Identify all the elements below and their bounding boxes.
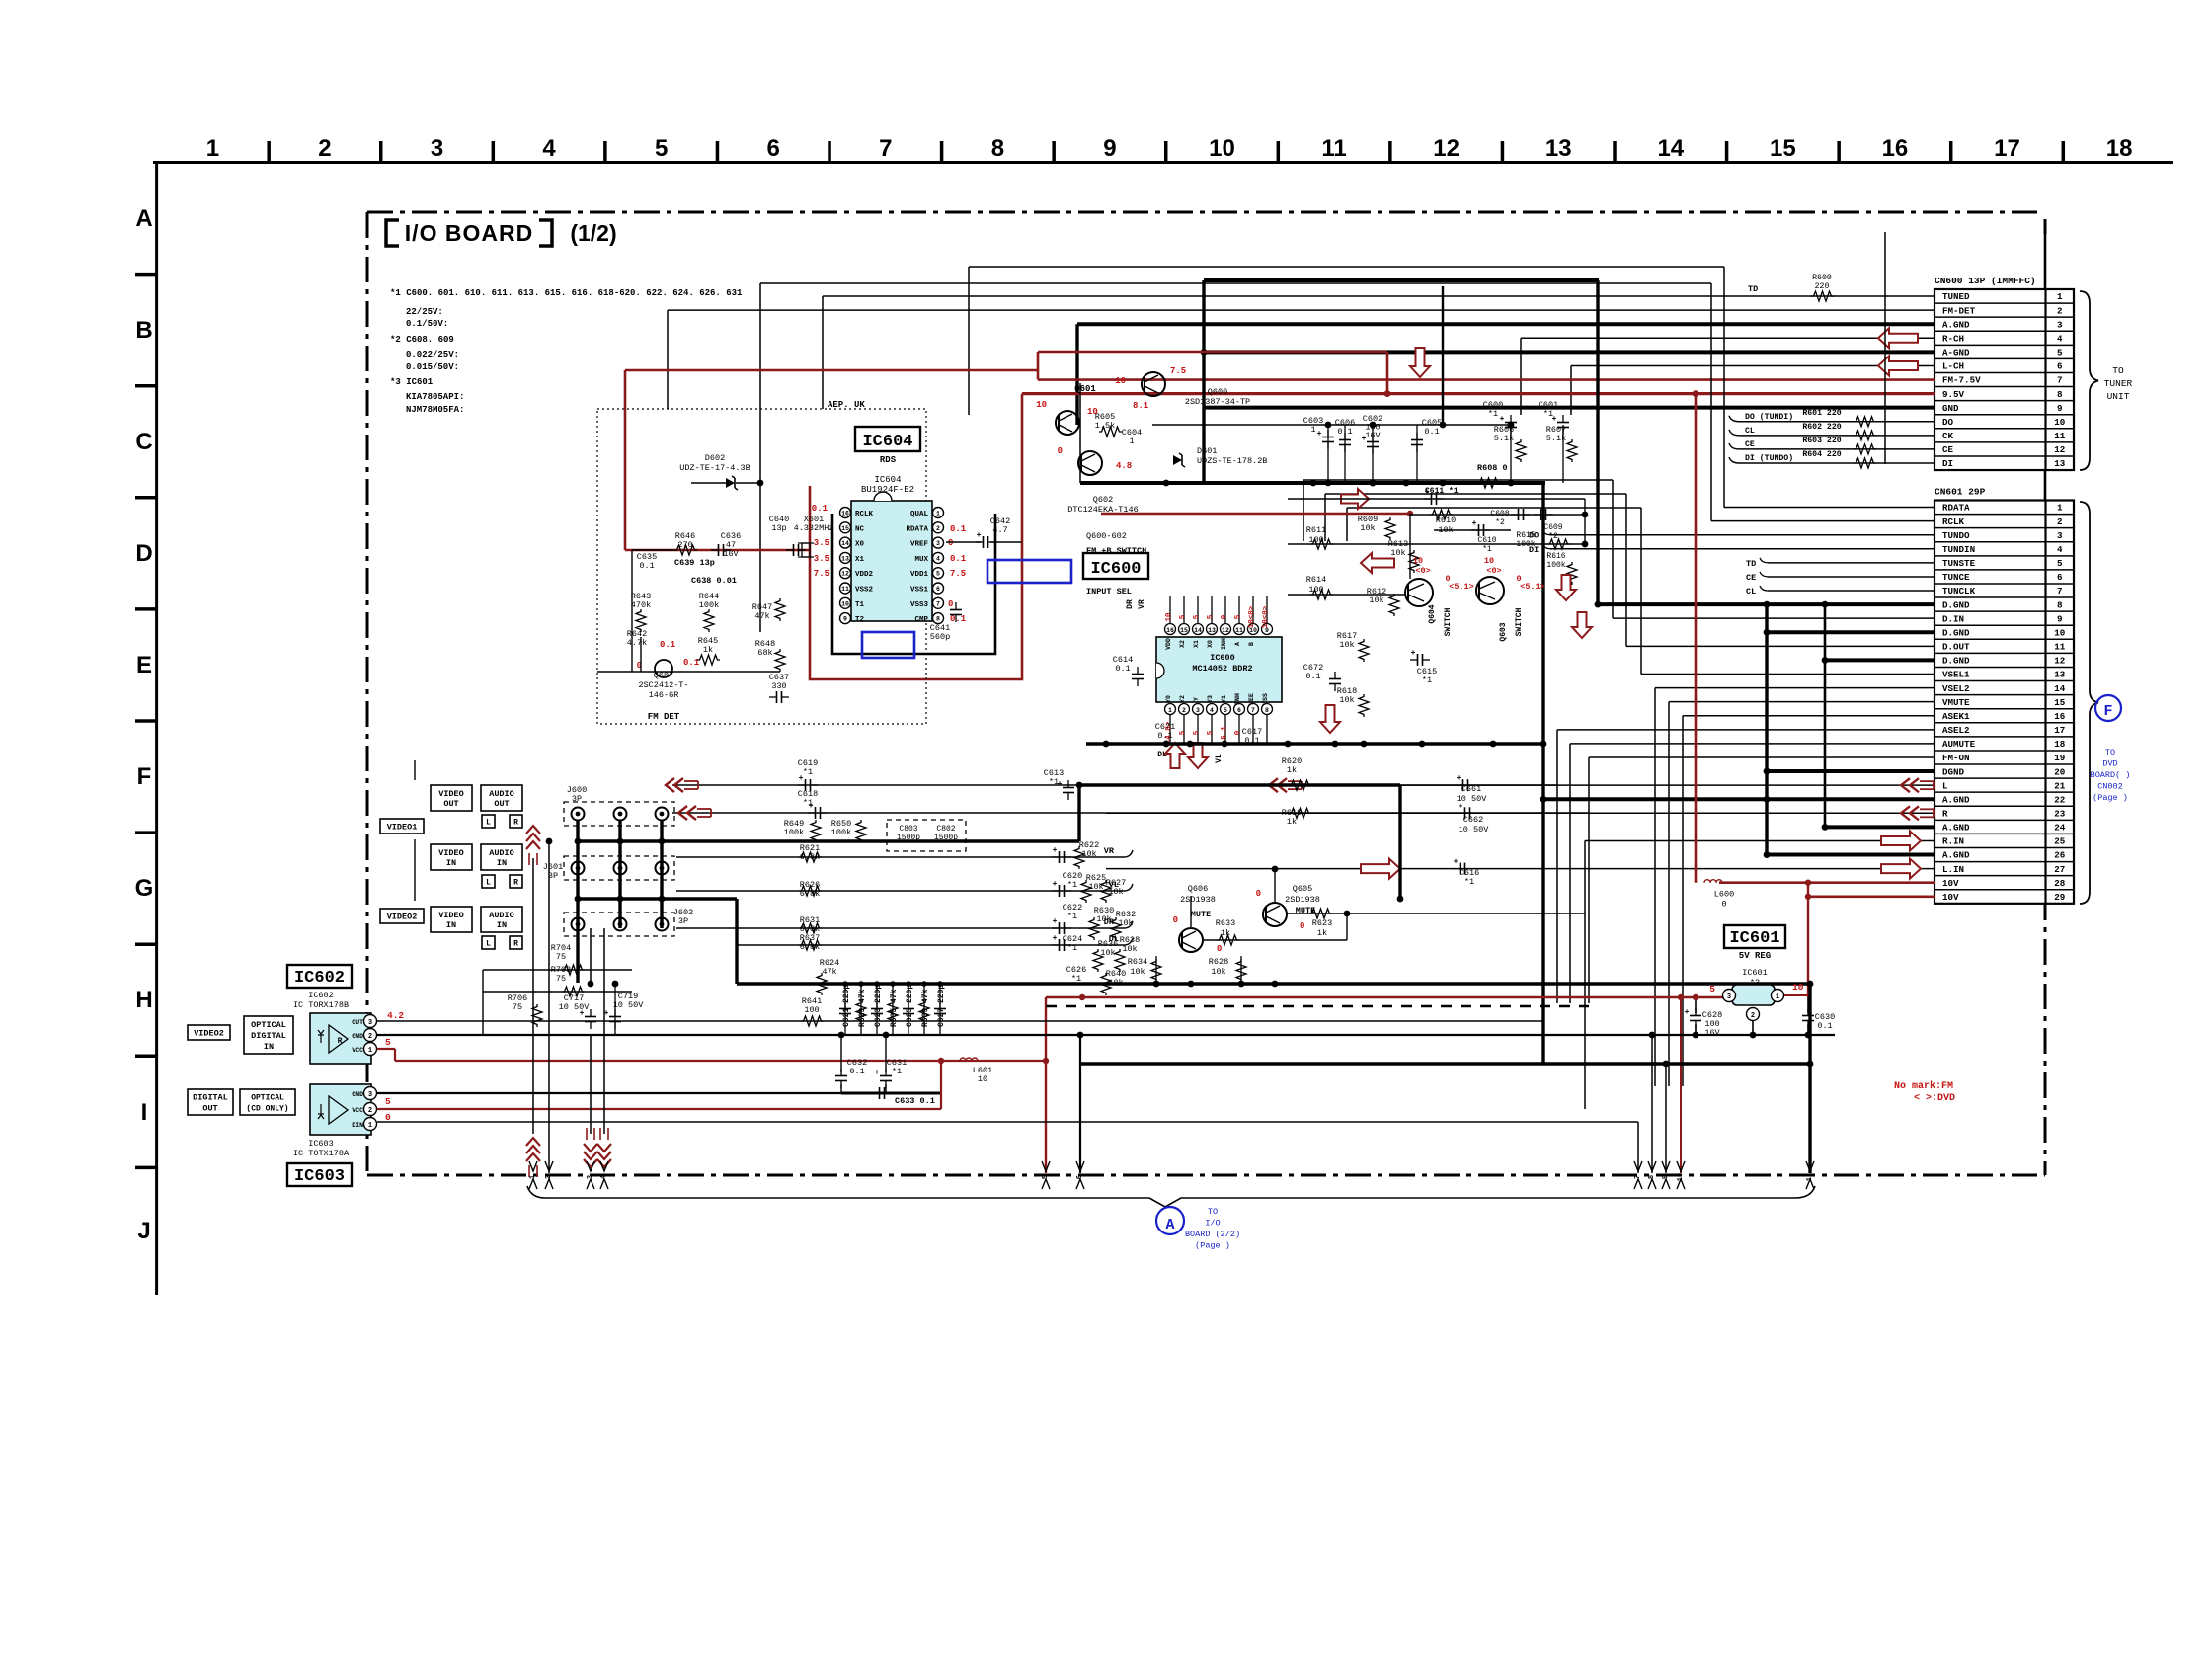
svg-text:2SC2412-T-: 2SC2412-T- xyxy=(638,680,688,690)
svg-text:0: 0 xyxy=(948,538,953,548)
svg-text:5: 5 xyxy=(1234,614,1242,619)
svg-text:A: A xyxy=(135,205,152,232)
svg-text:1500p: 1500p xyxy=(934,834,958,842)
svg-text:INPUT SEL: INPUT SEL xyxy=(1086,587,1132,596)
svg-text:R628: R628 xyxy=(1209,957,1228,967)
svg-text:2: 2 xyxy=(2057,516,2063,527)
svg-text:10V: 10V xyxy=(1942,878,1959,889)
svg-text:10<0>: 10<0> xyxy=(1248,605,1256,628)
svg-text:C803: C803 xyxy=(899,825,917,834)
svg-text:VSS: VSS xyxy=(1262,693,1269,705)
svg-text:5: 5 xyxy=(1709,984,1715,994)
svg-text:9: 9 xyxy=(1103,135,1116,162)
svg-text:+: + xyxy=(1500,415,1505,424)
svg-text:R.IN: R.IN xyxy=(1942,836,1964,847)
svg-text:2: 2 xyxy=(318,135,331,162)
svg-text:10: 10 xyxy=(1165,612,1173,622)
svg-text:D.OUT: D.OUT xyxy=(1942,642,1970,653)
svg-text:5: 5 xyxy=(1224,707,1227,714)
svg-text:5: 5 xyxy=(1207,730,1215,735)
svg-text:IN: IN xyxy=(497,920,507,930)
svg-text:R: R xyxy=(513,940,518,949)
svg-text:RDS: RDS xyxy=(880,455,897,465)
svg-text:+: + xyxy=(580,1009,585,1018)
svg-text:T1: T1 xyxy=(855,601,865,609)
svg-text:5.1: 5.1 xyxy=(1221,726,1228,740)
svg-text:FM-7.5V: FM-7.5V xyxy=(1942,375,1981,386)
svg-text:<5.1>: <5.1> xyxy=(1449,582,1474,592)
svg-text:DR: DR xyxy=(1126,599,1135,609)
svg-text:DIGITAL: DIGITAL xyxy=(251,1031,286,1041)
svg-text:12: 12 xyxy=(1433,135,1460,162)
svg-text:14: 14 xyxy=(1194,627,1202,634)
svg-text:5: 5 xyxy=(1193,614,1201,619)
svg-text:9: 9 xyxy=(843,616,847,623)
svg-text:+: + xyxy=(1411,649,1416,658)
svg-text:Q604: Q604 xyxy=(1428,604,1437,623)
svg-text:(Page ): (Page ) xyxy=(1195,1241,1230,1251)
svg-text:2SD1938: 2SD1938 xyxy=(1180,895,1216,905)
svg-text:C611 *1: C611 *1 xyxy=(1425,487,1459,496)
svg-text:+: + xyxy=(977,531,982,540)
svg-text:L600: L600 xyxy=(1714,890,1734,900)
svg-text:UDZ-TE-17-4.3B: UDZ-TE-17-4.3B xyxy=(679,463,750,473)
svg-text:1k: 1k xyxy=(703,645,713,655)
svg-text:0: 0 xyxy=(1058,446,1063,456)
svg-text:R: R xyxy=(513,819,518,828)
svg-text:R615: R615 xyxy=(1516,531,1535,540)
svg-text:+: + xyxy=(1685,1008,1690,1017)
svg-text:0.1: 0.1 xyxy=(950,524,967,534)
svg-text:+: + xyxy=(1053,934,1058,943)
svg-text:10: 10 xyxy=(1677,1173,1685,1181)
svg-text:IC601: IC601 xyxy=(1729,929,1779,948)
svg-text:VCC: VCC xyxy=(352,1047,363,1054)
svg-text:BOARD( ): BOARD( ) xyxy=(2091,770,2131,780)
svg-text:IC601: IC601 xyxy=(1742,968,1768,978)
svg-text:0: 0 xyxy=(1300,921,1304,931)
svg-text:C609: C609 xyxy=(1543,523,1562,532)
svg-text:10<0>: 10<0> xyxy=(1262,605,1270,628)
svg-text:R: R xyxy=(1942,809,1948,820)
svg-text:0.1: 0.1 xyxy=(849,1067,864,1076)
svg-text:A.GND: A.GND xyxy=(1942,794,1970,805)
svg-text:100: 100 xyxy=(804,1005,819,1015)
svg-text:4: 4 xyxy=(936,555,940,562)
svg-text:5: 5 xyxy=(2057,558,2063,569)
svg-text:J: J xyxy=(137,1218,150,1244)
svg-text:7.5: 7.5 xyxy=(814,569,829,579)
svg-text:10k: 10k xyxy=(1096,914,1111,924)
svg-text:D602: D602 xyxy=(705,453,725,463)
svg-text:13: 13 xyxy=(1545,135,1572,162)
svg-text:*1: *1 xyxy=(1464,877,1474,887)
svg-text:INH: INH xyxy=(1221,638,1227,650)
svg-text:4.7k: 4.7k xyxy=(627,638,647,648)
svg-text:A.GND: A.GND xyxy=(1942,823,1970,834)
svg-text:100k: 100k xyxy=(831,828,851,837)
svg-text:4: 4 xyxy=(2057,544,2063,555)
svg-text:100k: 100k xyxy=(699,600,719,610)
svg-text:10k: 10k xyxy=(1211,967,1225,977)
svg-text:Y3: Y3 xyxy=(1207,695,1214,703)
svg-text:17: 17 xyxy=(2054,725,2065,736)
svg-text:1: 1 xyxy=(1776,993,1779,1001)
svg-text:AUDIO: AUDIO xyxy=(489,789,514,799)
svg-text:0.022/25V:: 0.022/25V: xyxy=(406,350,459,359)
svg-text:0.1: 0.1 xyxy=(660,640,676,650)
svg-text:17: 17 xyxy=(1994,135,2020,162)
svg-text:<0>: <0> xyxy=(1415,566,1430,576)
svg-text:VSS1: VSS1 xyxy=(910,587,929,595)
svg-text:GND: GND xyxy=(352,1033,363,1040)
svg-text:VSEL1: VSEL1 xyxy=(1942,670,1970,680)
svg-text:C662: C662 xyxy=(1463,815,1483,825)
svg-text:5: 5 xyxy=(1193,730,1201,735)
svg-text:15: 15 xyxy=(841,525,849,532)
svg-text:470k: 470k xyxy=(631,600,651,610)
svg-text:11: 11 xyxy=(1235,627,1243,634)
svg-text:IN: IN xyxy=(446,858,456,868)
svg-text:0.1: 0.1 xyxy=(1817,1021,1832,1031)
svg-text:22: 22 xyxy=(2054,794,2065,805)
svg-text:10V: 10V xyxy=(1942,892,1959,903)
svg-text:+: + xyxy=(1053,846,1058,855)
svg-text:TO: TO xyxy=(2112,365,2124,376)
svg-text:IC600: IC600 xyxy=(1090,560,1141,579)
svg-text:11: 11 xyxy=(1321,135,1346,162)
svg-text:FM-ON: FM-ON xyxy=(1942,753,1970,763)
svg-text:R623: R623 xyxy=(1312,918,1332,928)
svg-text:10 50V: 10 50V xyxy=(613,1000,645,1010)
svg-text:18: 18 xyxy=(2054,739,2066,750)
svg-text:10k: 10k xyxy=(1390,548,1405,558)
svg-text:5: 5 xyxy=(655,135,668,162)
svg-text:VL: VL xyxy=(1215,754,1224,763)
svg-text:+: + xyxy=(1053,917,1058,926)
svg-text:CE: CE xyxy=(1746,573,1756,583)
svg-text:6: 6 xyxy=(1237,707,1241,714)
svg-text:E: E xyxy=(136,652,152,678)
svg-text:L-CH: L-CH xyxy=(1942,361,1964,372)
svg-text:Y0: Y0 xyxy=(1165,695,1172,703)
svg-text:3.5: 3.5 xyxy=(814,538,829,548)
svg-text:18: 18 xyxy=(2106,135,2133,162)
svg-text:VSS2: VSS2 xyxy=(855,587,874,595)
svg-text:VDD2: VDD2 xyxy=(855,571,874,579)
svg-text:*2: *2 xyxy=(1548,532,1558,541)
svg-text:IC600: IC600 xyxy=(1210,653,1235,663)
svg-text:16: 16 xyxy=(1166,627,1174,634)
svg-text:5V REG: 5V REG xyxy=(1739,951,1771,961)
svg-text:TD: TD xyxy=(1748,284,1758,294)
svg-text:R603 220: R603 220 xyxy=(1802,437,1841,445)
svg-text:4: 4 xyxy=(542,135,556,162)
svg-text:15: 15 xyxy=(2054,697,2066,708)
svg-text:Y1: Y1 xyxy=(1221,695,1227,703)
svg-text:7.5: 7.5 xyxy=(950,569,966,579)
svg-text:A: A xyxy=(1234,642,1241,646)
svg-text:VIDEO2: VIDEO2 xyxy=(194,1029,224,1039)
svg-text:22/25V:: 22/25V: xyxy=(406,307,443,317)
svg-text:I/O: I/O xyxy=(1205,1219,1220,1229)
svg-text:VCC: VCC xyxy=(352,1107,363,1114)
svg-text:QUAL: QUAL xyxy=(910,511,929,518)
svg-text:16V: 16V xyxy=(1704,1028,1720,1038)
svg-text:VREF: VREF xyxy=(910,541,929,549)
svg-text:Q603: Q603 xyxy=(1499,622,1508,641)
svg-text:6: 6 xyxy=(2057,361,2063,372)
svg-text:1k: 1k xyxy=(1287,765,1297,775)
svg-text:*3 IC601: *3 IC601 xyxy=(390,377,434,387)
svg-text:0.1/50V:: 0.1/50V: xyxy=(406,319,448,329)
svg-text:R: R xyxy=(338,1037,343,1046)
svg-text:C802: C802 xyxy=(936,825,955,834)
svg-text:No mark:FM: No mark:FM xyxy=(1894,1080,1953,1092)
svg-text:9: 9 xyxy=(2057,403,2063,414)
svg-text:5: 5 xyxy=(385,1096,391,1107)
svg-text:*2 C608. 609: *2 C608. 609 xyxy=(390,335,454,345)
svg-text:GND: GND xyxy=(1942,403,1959,414)
svg-text:CMP: CMP xyxy=(914,616,928,624)
svg-text:1: 1 xyxy=(206,135,219,162)
svg-text:VIDEO1: VIDEO1 xyxy=(387,823,418,833)
svg-text:*1: *1 xyxy=(1067,880,1077,890)
svg-text:5: 5 xyxy=(936,571,940,578)
svg-text:10k: 10k xyxy=(1118,918,1133,928)
svg-text:+: + xyxy=(1053,880,1058,889)
svg-text:L: L xyxy=(1942,780,1948,791)
svg-text:IN: IN xyxy=(264,1042,274,1052)
svg-text:10: 10 xyxy=(2054,417,2065,428)
svg-text:9: 9 xyxy=(1662,1175,1670,1179)
svg-text:Q602: Q602 xyxy=(1093,495,1113,505)
svg-text:14: 14 xyxy=(1657,135,1684,162)
svg-text:MUTE: MUTE xyxy=(1191,910,1211,919)
svg-text:0.1: 0.1 xyxy=(950,614,967,624)
svg-text:VDD: VDD xyxy=(1165,638,1172,650)
svg-text:AUDIO: AUDIO xyxy=(489,911,514,920)
svg-text:21: 21 xyxy=(2054,780,2066,791)
svg-text:5: 5 xyxy=(2057,348,2063,358)
svg-text:10 50V: 10 50V xyxy=(559,1002,591,1012)
svg-text:9.5V: 9.5V xyxy=(1942,389,1965,400)
svg-text:L.IN: L.IN xyxy=(1942,864,1964,875)
svg-text:C639 13p: C639 13p xyxy=(674,558,715,568)
svg-text:10: 10 xyxy=(1792,982,1804,993)
svg-text:7: 7 xyxy=(2057,586,2063,596)
svg-text:1: 1 xyxy=(1129,437,1134,446)
svg-text:4: 4 xyxy=(600,1175,608,1179)
svg-text:2: 2 xyxy=(936,525,940,532)
svg-text:3: 3 xyxy=(431,135,443,162)
svg-text:ASEL2: ASEL2 xyxy=(1942,725,1970,736)
svg-text:Q600-602: Q600-602 xyxy=(1086,531,1127,541)
svg-text:6.8k: 6.8k xyxy=(800,942,820,952)
svg-text:11: 11 xyxy=(841,586,849,593)
svg-text:R616: R616 xyxy=(1546,552,1565,561)
svg-text:2: 2 xyxy=(1751,1012,1755,1020)
svg-text:10: 10 xyxy=(841,600,849,607)
svg-text:3: 3 xyxy=(936,540,940,547)
svg-text:15: 15 xyxy=(1770,135,1796,162)
svg-text:2: 2 xyxy=(368,1107,372,1115)
svg-text:NJM78M05FA:: NJM78M05FA: xyxy=(406,405,464,415)
svg-text:2: 2 xyxy=(368,1033,372,1041)
svg-text:D.IN: D.IN xyxy=(1942,613,1964,624)
svg-text:FM DET: FM DET xyxy=(648,712,680,722)
svg-text:*1: *1 xyxy=(1067,912,1077,921)
svg-text:100k: 100k xyxy=(784,828,804,837)
svg-text:DO (TUNDI): DO (TUNDI) xyxy=(1745,412,1793,422)
svg-text:25: 25 xyxy=(2054,836,2066,847)
svg-text:0.015/50V:: 0.015/50V: xyxy=(406,362,459,372)
svg-text:AUDIO: AUDIO xyxy=(489,848,514,858)
svg-text:8: 8 xyxy=(991,135,1004,162)
svg-text:TD: TD xyxy=(1746,559,1756,569)
svg-text:20: 20 xyxy=(2054,766,2065,777)
svg-text:R602 220: R602 220 xyxy=(1802,423,1841,432)
svg-text:10k: 10k xyxy=(1088,882,1103,892)
svg-text:220: 220 xyxy=(1815,282,1830,291)
svg-text:26: 26 xyxy=(2054,850,2065,861)
svg-text:B: B xyxy=(135,317,152,344)
svg-text:3P: 3P xyxy=(678,916,688,926)
svg-text:0: 0 xyxy=(1173,915,1178,925)
svg-text:R: R xyxy=(513,879,518,888)
svg-text:(1/2): (1/2) xyxy=(570,220,616,246)
svg-text:330: 330 xyxy=(771,681,786,691)
svg-text:3: 3 xyxy=(2057,319,2063,330)
svg-text:1: 1 xyxy=(936,511,940,517)
svg-text:R608 0: R608 0 xyxy=(1477,463,1508,473)
svg-text:4.8: 4.8 xyxy=(1116,461,1132,471)
svg-text:0.1: 0.1 xyxy=(950,554,967,564)
svg-text:146-GR: 146-GR xyxy=(649,690,679,700)
svg-text:10k: 10k xyxy=(1369,596,1383,605)
svg-text:0: 0 xyxy=(1721,900,1726,910)
svg-text:1k: 1k xyxy=(1287,817,1297,827)
svg-text:IC603: IC603 xyxy=(294,1167,345,1186)
svg-text:5: 5 xyxy=(1179,614,1187,619)
svg-text:8: 8 xyxy=(2057,389,2063,400)
svg-text:FM-DET: FM-DET xyxy=(1942,305,1976,316)
svg-text:R614: R614 xyxy=(1306,575,1326,585)
svg-text:12: 12 xyxy=(2054,656,2065,667)
svg-text:A: A xyxy=(1165,1217,1174,1233)
svg-text:OPTICAL: OPTICAL xyxy=(251,1020,286,1030)
svg-text:+: + xyxy=(1362,435,1367,443)
svg-text:1: 1 xyxy=(529,1175,537,1179)
svg-text:13: 13 xyxy=(2054,670,2066,680)
svg-text:6.8k: 6.8k xyxy=(800,889,820,899)
svg-text:75: 75 xyxy=(513,1002,522,1012)
svg-text:VIDEO2: VIDEO2 xyxy=(387,913,418,922)
svg-text:TUNSTE: TUNSTE xyxy=(1942,558,1976,569)
svg-text:RCLK: RCLK xyxy=(1942,516,1965,527)
svg-text:27: 27 xyxy=(2054,864,2065,875)
svg-text:AEP. UK: AEP. UK xyxy=(828,400,865,410)
svg-text:VSS3: VSS3 xyxy=(910,601,929,609)
svg-text:1: 1 xyxy=(1168,707,1172,714)
svg-text:X0: X0 xyxy=(1207,640,1214,648)
svg-text:CE: CE xyxy=(1942,444,1954,455)
svg-text:RDATA: RDATA xyxy=(906,525,928,533)
svg-text:D.GND: D.GND xyxy=(1942,627,1970,638)
svg-text:13p: 13p xyxy=(771,523,786,533)
svg-text:F: F xyxy=(2103,703,2112,720)
svg-text:CN601 29P: CN601 29P xyxy=(1935,487,1986,498)
svg-text:<5.1>: <5.1> xyxy=(1520,582,1545,592)
svg-text:A.GND: A.GND xyxy=(1942,319,1970,330)
svg-text:7: 7 xyxy=(879,135,892,162)
svg-text:10: 10 xyxy=(978,1074,987,1084)
svg-text:4.7: 4.7 xyxy=(992,525,1007,535)
svg-text:L: L xyxy=(486,879,491,888)
svg-text:13: 13 xyxy=(841,555,849,562)
svg-text:Y: Y xyxy=(1193,697,1200,701)
svg-text:1: 1 xyxy=(2057,291,2063,302)
svg-text:3: 3 xyxy=(1727,993,1731,1001)
svg-text:+: + xyxy=(1472,519,1477,528)
svg-text:10k: 10k xyxy=(1130,967,1145,977)
svg-text:10: 10 xyxy=(1209,135,1235,162)
svg-text:3: 3 xyxy=(368,1091,372,1099)
svg-text:A-GND: A-GND xyxy=(1942,348,1970,358)
svg-text:KIA7805API:: KIA7805API: xyxy=(406,392,464,402)
svg-text:F: F xyxy=(137,763,152,790)
svg-text:10k: 10k xyxy=(1360,523,1375,533)
svg-text:R601 220: R601 220 xyxy=(1802,409,1841,418)
svg-text:DIGITAL: DIGITAL xyxy=(193,1093,228,1103)
svg-text:16: 16 xyxy=(841,511,849,517)
svg-text:75: 75 xyxy=(556,952,566,962)
svg-text:DI (TUNDO): DI (TUNDO) xyxy=(1745,453,1793,463)
svg-text:INH: INH xyxy=(1234,693,1241,705)
svg-text:8.1: 8.1 xyxy=(1133,401,1149,411)
svg-text:NC: NC xyxy=(855,525,865,533)
svg-text:T2: T2 xyxy=(855,616,865,624)
svg-text:Q605: Q605 xyxy=(1293,884,1312,894)
svg-text:47k: 47k xyxy=(822,967,836,977)
svg-text:I: I xyxy=(141,1099,148,1126)
svg-text:MC14052 BDR2: MC14052 BDR2 xyxy=(1192,664,1252,674)
svg-text:7: 7 xyxy=(1251,707,1255,714)
svg-text:*1: *1 xyxy=(1071,974,1081,984)
svg-text:VDD1: VDD1 xyxy=(910,571,929,579)
svg-text:*1: *1 xyxy=(892,1067,902,1076)
svg-text:10: 10 xyxy=(1115,376,1126,386)
svg-text:8: 8 xyxy=(1265,707,1269,714)
svg-text:+: + xyxy=(1317,430,1322,438)
svg-text:1: 1 xyxy=(1310,425,1315,435)
svg-text:SWITCH: SWITCH xyxy=(1444,607,1453,636)
svg-text:BOARD (2/2): BOARD (2/2) xyxy=(1185,1230,1240,1239)
svg-text:0.1: 0.1 xyxy=(1424,427,1439,437)
svg-text:13: 13 xyxy=(1208,627,1216,634)
svg-text:68k: 68k xyxy=(757,648,772,658)
svg-text:IN: IN xyxy=(497,858,507,868)
svg-text:0.1: 0.1 xyxy=(812,504,829,514)
svg-text:X1: X1 xyxy=(855,556,865,564)
svg-text:Q600: Q600 xyxy=(1208,387,1227,397)
svg-text:5: 5 xyxy=(1042,1175,1050,1179)
svg-text:1k: 1k xyxy=(1317,928,1327,938)
svg-text:4.332MHz: 4.332MHz xyxy=(794,523,834,533)
svg-text:CN600 13P (IMMFFC): CN600 13P (IMMFFC) xyxy=(1935,276,2036,286)
svg-text:12: 12 xyxy=(841,571,849,578)
svg-text:10k: 10k xyxy=(1339,695,1354,705)
